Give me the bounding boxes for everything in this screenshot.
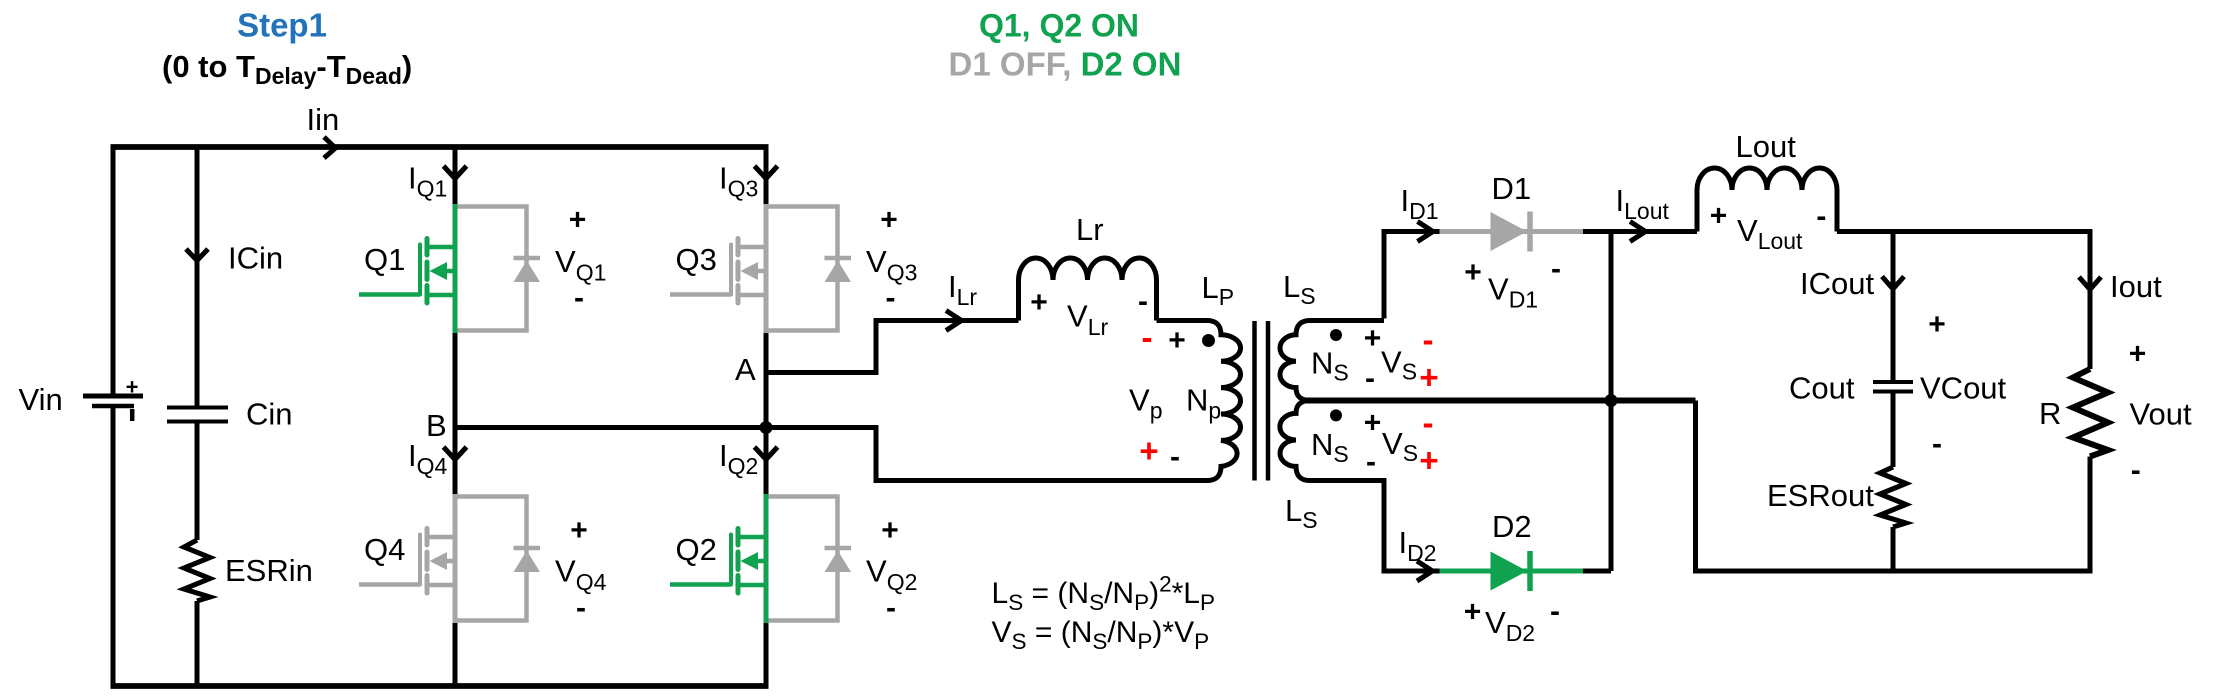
current arrow IQ4: [444, 447, 467, 460]
svg-text:VCout: VCout: [1920, 371, 2007, 406]
svg-text:+: +: [569, 204, 587, 237]
svg-text:Q2: Q2: [676, 532, 717, 567]
phase dot secondary top: [1330, 329, 1342, 341]
svg-text:VS: VS: [1382, 426, 1418, 466]
wire top rail: [111, 144, 769, 150]
svg-text:-: -: [1423, 321, 1434, 358]
svg-text:Cout: Cout: [1789, 371, 1855, 406]
resistor ESRin: [184, 540, 210, 601]
current arrow Iin: [324, 137, 336, 158]
svg-text:ILout: ILout: [1616, 183, 1670, 224]
diode D1 (gray, off): [1440, 212, 1584, 252]
transformer secondary winding bottom Ls: [1280, 401, 1384, 481]
current arrow ICout: [1882, 277, 1904, 290]
wire middle vertical D1 junction to D2: [1609, 232, 1614, 572]
current arrow ICin: [186, 249, 208, 261]
svg-text:VS = (NS/NP)*VP: VS = (NS/NP)*VP: [992, 616, 1210, 654]
svg-text:(0 to TDelay-TDead): (0 to TDelay-TDead): [162, 49, 412, 89]
battery Vin: [83, 396, 143, 421]
wire transformer center tap: [1302, 398, 1696, 404]
svg-text:ICout: ICout: [1800, 266, 1874, 301]
svg-text:D1 OFF, D2 ON: D1 OFF, D2 ON: [949, 46, 1182, 83]
transistor Q3 (gray, off): [670, 204, 851, 333]
wire bridge leg 2 (Q3/Q2): [764, 147, 769, 686]
svg-text:-: -: [576, 592, 586, 625]
wire secondary bottom to D2: [1384, 478, 1440, 571]
svg-text:+: +: [570, 514, 588, 547]
transistor Q4 (gray, off): [359, 494, 540, 623]
svg-text:VD2: VD2: [1485, 605, 1535, 646]
wire bottom rail: [111, 683, 769, 689]
svg-text:Cin: Cin: [246, 397, 293, 432]
svg-text:+: +: [1030, 286, 1048, 319]
svg-text:+: +: [1139, 432, 1158, 469]
svg-text:VQ4: VQ4: [555, 554, 607, 596]
current arrow ILout: [1630, 222, 1646, 242]
svg-text:LS: LS: [1283, 269, 1316, 309]
wire Lout to load: [1837, 229, 2093, 234]
phase dot secondary bottom: [1330, 409, 1342, 421]
current arrow IQ3: [755, 166, 778, 179]
svg-text:Np: Np: [1186, 383, 1221, 424]
resistor R: [2073, 369, 2108, 457]
svg-text:NS: NS: [1311, 346, 1349, 386]
svg-text:Lout: Lout: [1736, 129, 1797, 164]
phase dot primary: [1202, 334, 1215, 347]
svg-text:-: -: [2131, 454, 2141, 487]
svg-text:VQ1: VQ1: [555, 244, 606, 286]
svg-text:Q3: Q3: [676, 242, 717, 277]
svg-text:+: +: [2129, 338, 2147, 371]
svg-text:+: +: [881, 514, 899, 547]
wire bridge leg 1 (Q1/Q4): [453, 147, 458, 686]
transformer primary winding Lp: [1207, 321, 1241, 481]
junction dot at Q2 leg and B wire: [760, 421, 773, 434]
svg-text:+: +: [1710, 200, 1728, 233]
svg-text:ID1: ID1: [1401, 183, 1439, 224]
svg-text:VD1: VD1: [1488, 272, 1538, 313]
svg-text:VS: VS: [1381, 345, 1417, 385]
capacitor Cin: [167, 408, 228, 422]
svg-text:-: -: [1932, 428, 1942, 461]
svg-text:-: -: [1816, 200, 1826, 233]
svg-text:D1: D1: [1492, 171, 1532, 206]
svg-text:LS: LS: [1285, 493, 1318, 533]
wire Cin/ESRin branch: [195, 147, 200, 686]
svg-text:Q1, Q2 ON: Q1, Q2 ON: [979, 8, 1139, 44]
svg-text:Step1: Step1: [237, 7, 327, 44]
svg-text:Vout: Vout: [2130, 397, 2192, 432]
svg-text:ICin: ICin: [228, 241, 283, 276]
svg-text:VLout: VLout: [1737, 213, 1803, 254]
svg-text:-: -: [1551, 253, 1561, 286]
svg-text:Iin: Iin: [307, 102, 340, 137]
wire Cout branch: [1891, 232, 1896, 572]
svg-text:VLr: VLr: [1067, 299, 1108, 341]
svg-text:IQ2: IQ2: [719, 438, 758, 479]
svg-text:Q1: Q1: [364, 242, 405, 277]
svg-text:IQ4: IQ4: [408, 438, 448, 479]
svg-text:-: -: [1365, 362, 1375, 395]
svg-text:LS = (NS/NP)2*LP: LS = (NS/NP)2*LP: [992, 572, 1215, 616]
wire node A to Lr: [766, 321, 1019, 373]
wire Lr to primary: [1157, 318, 1210, 323]
inductor Lout: [1697, 168, 1837, 232]
diode D2 (green, on): [1440, 551, 1584, 591]
svg-text:ESRin: ESRin: [225, 553, 313, 588]
svg-text:-: -: [1423, 404, 1434, 441]
svg-text:+: +: [1168, 324, 1186, 357]
svg-text:R: R: [2039, 396, 2061, 431]
svg-text:+: +: [1419, 442, 1438, 479]
svg-text:Vp: Vp: [1129, 383, 1162, 424]
wire D1 to Lout: [1583, 229, 1697, 234]
wire load branch: [2088, 232, 2093, 574]
svg-text:+: +: [1464, 596, 1482, 629]
svg-text:-: -: [1138, 285, 1148, 318]
svg-text:+: +: [126, 375, 139, 400]
svg-text:Iout: Iout: [2110, 269, 2162, 304]
svg-text:+: +: [1464, 256, 1482, 289]
svg-text:LP: LP: [1202, 270, 1235, 310]
wire node B to transformer primary bottom: [455, 428, 1209, 481]
svg-text:A: A: [735, 352, 756, 387]
current arrow ILr: [946, 311, 962, 331]
svg-text:+: +: [1364, 407, 1382, 440]
capacitor Cout: [1873, 382, 1913, 392]
wire left vertical input branch: [111, 145, 116, 689]
transformer core: [1255, 321, 1269, 481]
current arrow ID2: [1417, 561, 1433, 581]
inductor Lr: [1019, 258, 1157, 321]
svg-text:-: -: [1366, 446, 1376, 479]
svg-text:Vin: Vin: [19, 382, 63, 417]
svg-text:NS: NS: [1311, 427, 1349, 467]
current arrow IQ1: [444, 166, 467, 179]
svg-text:-: -: [574, 282, 584, 315]
wire secondary top to D1: [1384, 232, 1440, 319]
svg-text:+: +: [1419, 359, 1438, 396]
svg-text:-: -: [886, 592, 896, 625]
transistor Q2 (green, on): [670, 494, 851, 623]
svg-text:VQ2: VQ2: [866, 554, 917, 596]
svg-text:ILr: ILr: [948, 269, 977, 310]
wire output bottom rail: [1693, 569, 2093, 574]
transistor Q1 (green, on): [359, 204, 540, 333]
svg-text:IQ3: IQ3: [719, 161, 758, 202]
resistor ESRout: [1880, 467, 1906, 527]
svg-text:-: -: [886, 282, 896, 315]
svg-text:+: +: [880, 204, 898, 237]
wire D2 to junction: [1583, 569, 1611, 574]
svg-text:-: -: [1142, 319, 1153, 356]
svg-text:B: B: [426, 408, 447, 443]
svg-text:+: +: [1928, 308, 1946, 341]
current arrow ID1: [1418, 222, 1434, 242]
svg-text:+: +: [1364, 322, 1382, 355]
junction dot center tap: [1605, 394, 1618, 407]
current arrow IQ2: [755, 447, 778, 460]
transformer secondary winding top Ls: [1280, 321, 1384, 401]
current arrow Iout: [2079, 277, 2101, 290]
wire center tap leg down: [1693, 401, 1698, 572]
svg-text:-: -: [1170, 441, 1180, 474]
svg-text:IQ1: IQ1: [408, 161, 447, 202]
svg-text:Q4: Q4: [364, 532, 405, 567]
svg-text:ID2: ID2: [1399, 525, 1437, 566]
svg-text:VQ3: VQ3: [866, 244, 917, 286]
svg-text:-: -: [1550, 595, 1560, 628]
svg-text:Lr: Lr: [1076, 212, 1104, 247]
svg-text:D2: D2: [1492, 509, 1532, 544]
svg-text:ESRout: ESRout: [1767, 478, 1874, 513]
